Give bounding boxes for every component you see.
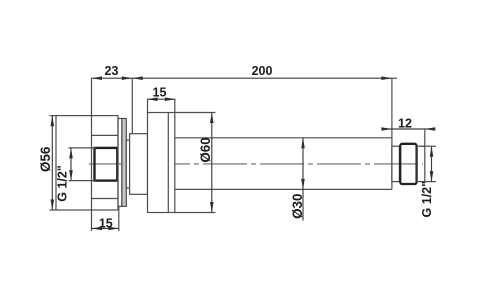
double arrow at 23/200 junction (122, 76, 133, 80)
flange bore line upper (92, 134, 119, 136)
ring washer (118, 119, 122, 207)
svg-text:12: 12 (398, 117, 412, 131)
gray ring (122, 119, 126, 207)
svg-text:23: 23 (105, 64, 119, 78)
dim G1/2 left line (70, 148, 72, 181)
arrow G1/2 left bottom (69, 170, 73, 181)
arrow 12 right (outside) (425, 127, 436, 131)
dim Ø30 line (302, 138, 304, 221)
flange bore line lower (92, 198, 119, 200)
extension Ø60 top (175, 112, 216, 114)
arrow Ø56 top (51, 116, 55, 127)
extension G1/2 right top (421, 145, 436, 147)
extension Ø60 bottom (175, 212, 216, 214)
extension 15 top left (147, 99, 149, 112)
dim G1/2 right line (431, 146, 433, 181)
block Ø60 (148, 113, 175, 213)
centerline (89, 163, 423, 165)
arrow Ø56 bottom (51, 200, 55, 211)
arrow Ø30 top (301, 138, 305, 149)
arrow right 15 bottom (108, 227, 119, 231)
svg-text:G 1/2": G 1/2" (420, 181, 434, 218)
tip end cap (417, 146, 425, 181)
extension line at 23 right (131, 78, 133, 134)
dim 15 bottom line (92, 227, 119, 229)
extension G1/2 left bottom (69, 180, 96, 182)
tip thread G1/2 male (thick) (400, 144, 416, 184)
tube end line (also 200/12-dim extension) (391, 78, 393, 189)
arrow right of 200 (381, 76, 392, 80)
dim Ø60 line (211, 113, 213, 213)
arrow left 15 top (147, 97, 158, 101)
svg-text:G 1/2": G 1/2" (55, 165, 69, 202)
dim line 23/200 (92, 77, 398, 79)
arrow 12 left (outside) (381, 127, 392, 131)
svg-text:Ø30: Ø30 (290, 194, 305, 219)
svg-text:Ø56: Ø56 (38, 147, 53, 172)
arrow G1/2 right top (430, 146, 434, 157)
svg-text:Ø60: Ø60 (198, 137, 213, 162)
extension Ø56 bottom (50, 209, 56, 211)
arrow Ø30 bottom (301, 179, 305, 190)
flange face line (also 23-dim and 15-dim extension) (91, 78, 93, 231)
tube Ø30 top edge (175, 137, 392, 139)
flange Ø56 outline (56, 116, 118, 210)
svg-text:200: 200 (252, 64, 273, 78)
step collar (126, 140, 129, 188)
arrow Ø60 bottom (210, 202, 214, 213)
arrow Ø60 top (210, 113, 214, 124)
extension 15 top right (174, 99, 176, 112)
tube Ø30 bottom edge (175, 188, 392, 190)
dim 12 line (382, 128, 434, 130)
dim 15 top line (147, 98, 175, 100)
thread G1/2 female (thick) (95, 148, 118, 181)
svg-text:15: 15 (99, 217, 113, 231)
arrow left 15 bottom (92, 227, 103, 231)
extension G1/2 left top (69, 147, 96, 149)
extension 12 right (424, 129, 426, 146)
arrow G1/2 left top (69, 148, 73, 159)
tip groove (392, 146, 400, 181)
extension Ø56 top (50, 115, 56, 117)
arrow left of 23 (92, 76, 103, 80)
svg-text:15: 15 (153, 86, 167, 100)
neck (130, 134, 148, 195)
arrow G1/2 right bottom (430, 171, 434, 182)
extension 15 bottom right (118, 206, 120, 231)
dim Ø56 line (51, 116, 53, 210)
arrow right 15 top (165, 97, 176, 101)
extension G1/2 right bottom (421, 181, 436, 183)
block face line (167, 113, 169, 213)
